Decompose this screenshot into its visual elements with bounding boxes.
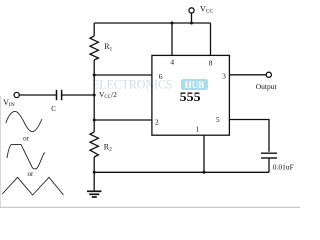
resistor R2 — [90, 132, 98, 157]
node junction top pin4 — [171, 22, 174, 25]
wire capacitor to node — [62, 94, 95, 96]
wire pin3 to output — [229, 74, 266, 76]
svg-text:3: 3 — [222, 72, 226, 81]
ground — [87, 191, 102, 197]
wire pin4 lead — [171, 23, 173, 55]
edge artifact left — [0, 96, 2, 208]
svg-text:or: or — [23, 135, 30, 143]
svg-text:C: C — [51, 105, 56, 113]
svg-text:HUB: HUB — [185, 80, 205, 90]
wire Vcc lead — [191, 13, 193, 23]
node junction pin2 — [93, 119, 96, 122]
wire R1 top lead — [93, 23, 95, 36]
svg-text:5: 5 — [216, 115, 220, 124]
node junction pin1 — [203, 171, 206, 174]
svg-text:Output: Output — [256, 82, 278, 91]
node junction Vcc/2 — [93, 94, 96, 97]
svg-text:555: 555 — [180, 90, 201, 104]
resistor R1 — [90, 36, 98, 60]
svg-text:0.01uF: 0.01uF — [273, 163, 294, 172]
wire pin5 — [229, 120, 269, 152]
wire input from Vin to capacitor — [19, 94, 56, 96]
node junction ground rail — [93, 171, 96, 174]
wire pin6 — [94, 74, 152, 76]
wire cap bottom lead — [268, 158, 270, 172]
wire pin1 lead — [203, 135, 205, 172]
wire R2 bottom lead to ground — [93, 157, 95, 191]
node junction pin6 — [93, 74, 96, 77]
wire top rail — [94, 22, 210, 24]
wire left branch middle — [93, 60, 95, 132]
waveform clipped sine — [7, 144, 45, 169]
capacitor C — [57, 90, 62, 100]
terminal Vcc — [189, 8, 194, 13]
waveform sine — [6, 111, 42, 131]
terminal Vin — [14, 92, 19, 97]
svg-text:2: 2 — [155, 117, 159, 126]
svg-text:1: 1 — [195, 124, 199, 133]
capacitor C2 0.01uF — [261, 153, 277, 158]
watermark HUB badge — [181, 79, 208, 90]
wire pin2 — [94, 119, 152, 121]
edge artifact bottom — [0, 206, 300, 208]
waveform triangle — [2, 177, 63, 195]
wire bottom rail — [94, 171, 269, 173]
svg-text:4: 4 — [170, 58, 174, 67]
wire pin8 lead — [210, 23, 212, 55]
svg-text:6: 6 — [159, 72, 163, 81]
node junction top Vcc — [190, 22, 193, 25]
op-amp U1 555 box — [152, 55, 230, 135]
svg-text:or: or — [27, 170, 34, 178]
terminal Output — [266, 72, 271, 77]
svg-text:8: 8 — [209, 59, 213, 68]
